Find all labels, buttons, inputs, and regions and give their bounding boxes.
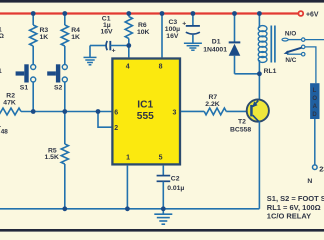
junction dot C1/R6 (126, 43, 131, 48)
relay RL1 coil (258, 14, 276, 101)
resistor R7 (204, 108, 226, 115)
wire R4 column top (64, 14, 66, 26)
svg-text:1K: 1K (40, 34, 49, 41)
ground rail (bottom bus) (0, 208, 259, 210)
svg-text:1N4001: 1N4001 (203, 47, 227, 54)
svg-text:IC1: IC1 (137, 100, 153, 111)
wire S1 to bus (32, 82, 34, 112)
capacitor C2 (157, 176, 185, 192)
svg-text:+: + (112, 47, 116, 54)
notes text block (267, 194, 324, 220)
bottom frame border (0, 229, 324, 232)
N terminal (313, 165, 318, 170)
svg-text:N/C: N/C (285, 57, 296, 64)
svg-text:L: L (313, 88, 317, 94)
wire R7 to T2 base (226, 110, 250, 112)
switch S1 (16, 64, 36, 91)
wire LOAD to N terminal (314, 119, 316, 165)
wire R3 column top (32, 14, 34, 26)
svg-text:4: 4 (126, 63, 130, 70)
+6V terminal circle (298, 11, 303, 16)
LOAD box (310, 83, 319, 119)
svg-text:N/O: N/O (285, 31, 296, 38)
op-amp/timer IC1 555 body (112, 59, 180, 165)
svg-text:230V: 230V (319, 165, 324, 174)
svg-text:16V: 16V (166, 33, 179, 40)
svg-text:C2: C2 (171, 176, 180, 183)
wire S2 to bus (64, 82, 66, 112)
svg-text:RL1: RL1 (264, 68, 277, 75)
relay core (270, 26, 272, 63)
svg-text:48: 48 (1, 129, 9, 136)
svg-text:S1: S1 (20, 84, 29, 91)
wire R4 to S2 (64, 46, 66, 64)
svg-text:N: N (307, 178, 312, 185)
ground for C1 (84, 46, 97, 65)
wire R3 to S1 (32, 46, 34, 64)
svg-text:0.01µ: 0.01µ (167, 185, 184, 192)
wire C2 to ground rail (162, 182, 164, 209)
svg-text:O: O (312, 96, 317, 102)
junction dots trigger bus (31, 109, 36, 114)
wire branch to pin 2 (98, 112, 112, 128)
svg-text:555: 555 (137, 111, 154, 122)
svg-text:+6V: +6V (306, 11, 319, 18)
svg-text:BC558: BC558 (230, 126, 251, 133)
svg-text:6: 6 (114, 109, 118, 116)
svg-text:D: D (312, 112, 317, 118)
svg-text:5: 5 (159, 154, 163, 161)
svg-text:1.5K: 1.5K (45, 154, 59, 161)
resistor R3 (30, 25, 37, 46)
wire pole to LOAD (305, 47, 316, 83)
switch S2 (47, 64, 67, 91)
wire pin 8 to rail (161, 14, 163, 58)
svg-text:16V: 16V (101, 29, 114, 36)
svg-text:47K: 47K (3, 100, 16, 107)
resistor R2 (cut at left edge) (0, 108, 21, 115)
relay contacts (282, 31, 324, 65)
svg-text:Ω: Ω (0, 33, 5, 40)
+6V supply rail (red wire) (0, 12, 298, 14)
svg-text:8: 8 (159, 63, 163, 70)
svg-text:R3: R3 (40, 27, 49, 34)
svg-text:1: 1 (126, 154, 130, 161)
wire bus to R5 (64, 112, 66, 145)
resistor R4 (61, 25, 68, 46)
svg-text:A: A (313, 104, 318, 110)
transistor T2 (230, 100, 269, 134)
resistor R5 (61, 144, 68, 164)
svg-text:3: 3 (173, 109, 177, 116)
wire pin 1 to ground rail (126, 166, 128, 209)
svg-text:C3: C3 (169, 19, 178, 26)
svg-text:1: 1 (0, 68, 2, 75)
svg-text:1C/O RELAY: 1C/O RELAY (267, 211, 311, 220)
svg-text:S2: S2 (54, 84, 63, 91)
svg-text:T2: T2 (238, 119, 246, 126)
svg-text:D1: D1 (212, 39, 221, 46)
junction dots ground rail (62, 206, 67, 211)
diode D1 (203, 14, 259, 74)
capacitor C1 (90, 16, 129, 55)
trigger bus wire (21, 111, 112, 113)
wire T2 collector to ground rail (258, 121, 260, 209)
wire pin 3 to R7 (181, 110, 204, 112)
svg-text:1K: 1K (71, 34, 80, 41)
ground symbol bottom (154, 209, 172, 224)
junction dot D1/relay (257, 71, 262, 76)
capacitor C3 (165, 14, 200, 44)
svg-text:S1, S2 = FOOT SW: S1, S2 = FOOT SW (267, 194, 324, 203)
svg-text:+: + (182, 21, 186, 28)
wire R5 to ground rail (64, 164, 66, 209)
svg-text:2: 2 (114, 125, 118, 132)
ground for C3 (184, 43, 202, 50)
top frame border (0, 0, 324, 3)
svg-text:R2: R2 (6, 93, 15, 100)
svg-text:10K: 10K (137, 29, 150, 36)
svg-text:100µ: 100µ (165, 26, 180, 33)
junction dots top rail (31, 11, 36, 16)
svg-text:2.2K: 2.2K (205, 101, 219, 108)
svg-text:R4: R4 (71, 27, 80, 34)
resistor R6 column (128, 14, 130, 17)
resistor R6 (125, 17, 132, 39)
wire R6 to pin 4 (128, 39, 130, 58)
wire pin 5 to C2 (162, 166, 164, 176)
